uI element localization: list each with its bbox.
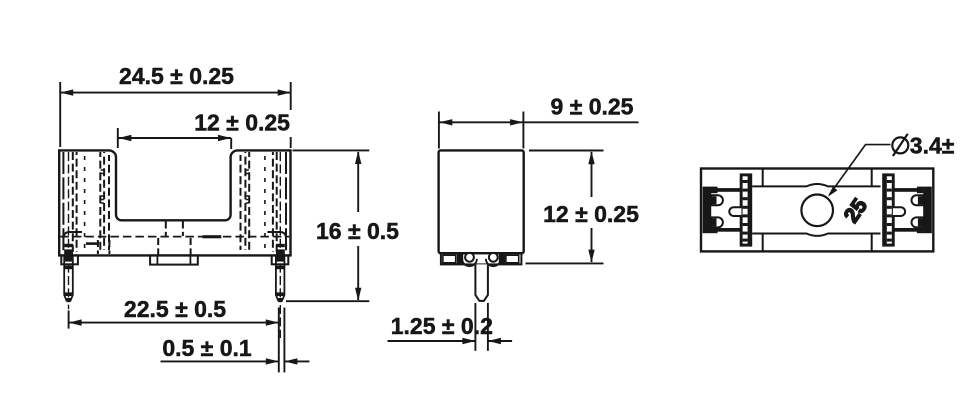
svg-text:24.5 ± 0.25: 24.5 ± 0.25: [119, 63, 234, 89]
base black wedge right: [499, 254, 505, 264]
left leg: [64, 255, 73, 301]
dimension 16: line: [357, 152, 359, 300]
svg-text:22.5 ± 0.5: 22.5 ± 0.5: [124, 296, 226, 322]
clip top arm and band: [711, 187, 718, 194]
svg-text:12 ± 0.25: 12 ± 0.25: [194, 110, 290, 136]
dimension 24.5: line: [60, 92, 291, 94]
dimension 12 side: line: [591, 152, 593, 262]
dimension 22.5: arrows: [69, 319, 279, 325]
hidden dashed lines right wall: [285, 152, 287, 252]
dimension 9: extension lines: [439, 112, 524, 149]
right clip assembly (mirror): [882, 173, 932, 246]
center tab inner verticals: [157, 255, 190, 264]
dimension 9: arrows: [439, 119, 523, 125]
dimension 12: extension lines: [118, 128, 231, 149]
dimension 12: arrows: [118, 135, 230, 141]
right hook detail: [268, 232, 287, 239]
left leg fill blocks: [64, 256, 72, 302]
base inner left rect: [443, 255, 456, 263]
hidden dashed lines under notch (tab walls): [98, 222, 191, 255]
left mounting stub: [61, 255, 78, 264]
clip black spine: [703, 187, 712, 234]
leader line for hole dia: [829, 145, 890, 195]
dimension 12 side: arrows: [588, 151, 594, 262]
dimension 12 side: extension lines: [526, 151, 604, 264]
svg-text:0.5 ± 0.1: 0.5 ± 0.1: [162, 335, 252, 361]
svg-text:3.4±: 3.4±: [910, 133, 955, 159]
dimension 16: arrows: [355, 151, 361, 301]
division verticals left: [762, 169, 764, 252]
diameter symbol: [892, 137, 908, 153]
inner top line with bump: [752, 184, 880, 186]
dimension 0.5: extension lines: [279, 308, 285, 373]
svg-text:9 ± 0.25: 9 ± 0.25: [551, 93, 634, 119]
left leg centerline: [68, 152, 70, 309]
left clip assembly: [703, 173, 753, 246]
top view outer rect: [701, 169, 933, 252]
leader arrow: [828, 187, 838, 197]
base circle right: [489, 253, 498, 262]
right leg: [276, 255, 285, 301]
finger bottom: [711, 217, 723, 227]
dimension 24.5: arrows: [60, 89, 291, 95]
center hole circle: [801, 195, 833, 227]
dimension 1.25: extension lines: [475, 303, 488, 351]
ladder ticks right: [246, 170, 249, 203]
dimension 22.5: extension line: [68, 311, 70, 329]
svg-text:16 ± 0.5: 16 ± 0.5: [316, 218, 399, 244]
left leg hidden fill: [64, 244, 285, 255]
division verticals right: [871, 169, 873, 252]
front view outline: [59, 150, 290, 255]
base circle left: [465, 253, 474, 262]
dimension 12: line: [118, 137, 230, 139]
hidden dashed lines left wall: [62, 152, 64, 252]
base black wedge left: [457, 254, 463, 264]
inner bottom line with bump: [752, 234, 880, 236]
finger top: [711, 195, 723, 205]
ladder ticks left: [101, 170, 104, 203]
clip bottom arm and band: [711, 227, 718, 234]
dimension 16: extension lines: [286, 150, 369, 301]
sparse dashed line right: [264, 156, 266, 248]
right leg centerline: [279, 152, 281, 338]
base cup arc right: [486, 259, 501, 266]
horizontal hidden dashed line across body: [60, 236, 289, 238]
dimension 9: line: [439, 121, 639, 123]
sparse dashed line left: [84, 156, 86, 248]
right thick dash mark: [203, 235, 222, 238]
dimension 1.25: line and arrows: [388, 340, 513, 342]
dimension 0.5: line and arrows: [161, 360, 310, 362]
right leg fill blocks: [276, 256, 284, 302]
right mounting stub: [272, 255, 289, 264]
dimension 24.5: extension lines: [60, 82, 291, 148]
ladder clip: [740, 173, 753, 246]
pin: [475, 264, 488, 301]
svg-text:12 ± 0.25: 12 ± 0.25: [543, 201, 639, 227]
left thick dash mark: [86, 242, 99, 245]
side view body: [439, 150, 524, 253]
side view base: [441, 253, 522, 264]
svg-text:25: 25: [840, 194, 872, 227]
dimension 22.5: line: [69, 322, 279, 324]
base cup arc left: [462, 259, 477, 266]
base inner right rect: [506, 255, 519, 263]
center bottom tab: [150, 255, 198, 264]
svg-text:1.25 ± 0.2: 1.25 ± 0.2: [391, 313, 493, 339]
keyhole tab: [729, 207, 741, 216]
left hook detail: [64, 232, 83, 239]
